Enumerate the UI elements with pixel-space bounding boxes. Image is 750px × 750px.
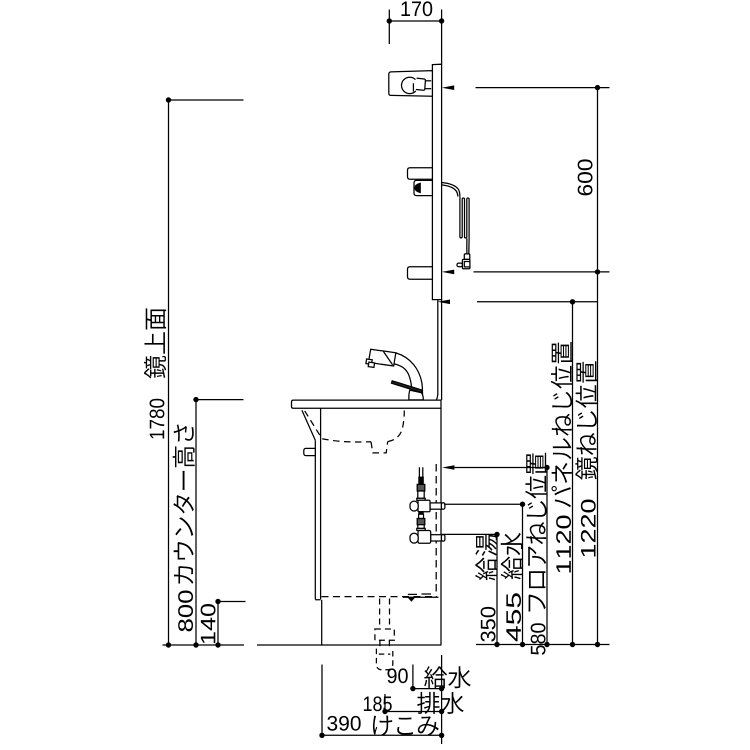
counter top [292,400,442,408]
arrow at panel screw [438,300,450,305]
dim text 455 [506,593,521,641]
extension line 170 right [441,10,443,65]
supply pipe [419,467,422,477]
drain pipe below floor [376,649,392,670]
cabinet back line [440,408,442,645]
dim line 600-1220 [597,88,599,645]
dim line 140 [215,599,220,648]
label mirror top [144,308,166,378]
shelf lamp [414,180,432,195]
dim text 1120 [556,516,571,573]
toe board [321,600,323,645]
label panel screw [551,342,573,507]
label toe kick [373,716,439,736]
lamp bulb [402,77,432,93]
plug [457,254,470,269]
cabinet inner back hidden line [435,464,437,596]
leader counter height [196,399,244,401]
baseline right [476,642,610,647]
stop valve hot [410,477,445,512]
dim line 1780 [166,97,171,647]
cord coil [460,197,469,238]
label cold water [501,533,523,580]
baseline left [163,644,245,646]
extension line front [321,665,323,737]
dim line 455 [522,504,524,644]
dim line 170 [387,18,445,23]
dim line 800 [193,397,198,648]
label mirror screw [575,361,597,480]
mirror cabinet top shelf [408,168,433,180]
dim text 140 [201,604,216,643]
leader mirror top [169,99,244,101]
dim text 600 [578,159,593,195]
cabinet bottom hidden line [322,596,438,598]
arrow at mirror bottom [442,270,454,275]
floor line [257,644,441,646]
dim line 580 [546,468,548,645]
extension line drain [384,694,386,712]
faucet body [409,390,423,400]
dim text 170 [402,1,433,16]
dim text 185 [364,696,392,711]
dim line 390 [319,733,444,738]
stop valve cold [410,512,445,544]
label counter height [173,425,195,584]
dim line 350 [496,534,498,644]
drain pipe hidden [375,599,394,649]
light fixture housing [389,71,433,97]
leader panel screw [477,299,598,304]
mirror cabinet bottom shelf [408,267,433,279]
faucet spout [393,353,422,400]
label drain bottom [417,692,464,714]
label floor screw [525,453,547,612]
dim text 390 [327,716,360,731]
cabinet front panel [315,408,320,600]
faucet head [366,349,396,367]
leader floor screw [454,465,550,470]
dim line 1120 [572,302,574,645]
towel bar [304,448,316,455]
dim text 580 [531,623,546,654]
faucet lever [392,381,422,393]
extension line back [441,655,443,744]
leader knee space [218,601,246,603]
mirror cabinet side panel [432,64,441,299]
leader hot water [442,532,500,537]
back panel [436,300,441,400]
leader 600 top [476,85,610,90]
dim line 90 [410,686,444,691]
arrow at light fixture [442,85,454,90]
dim text 1220 [581,500,596,557]
leader cold water [444,502,525,507]
label supply bottom [424,666,471,688]
cord outlet [442,183,460,197]
dim text 90 [387,668,407,683]
dim text 1780 [150,399,165,439]
drain fitting [403,594,439,601]
dim text 800 [178,591,193,632]
extension line supply [412,665,414,690]
dim line 185 [382,709,444,714]
dim text 350 [481,607,496,642]
cord lead [467,237,469,254]
leader 600 bottom [474,269,610,274]
cabinet front slope [302,410,315,440]
arrow at floor screw [442,465,454,470]
extension line 170 left [388,10,390,45]
sink bowl hidden outline [305,411,405,453]
label hot water [475,534,497,580]
